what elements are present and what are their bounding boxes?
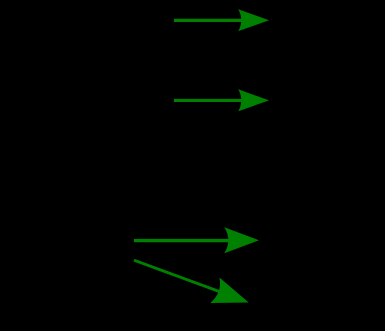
arrow 4 shaft <box>134 260 222 292</box>
arrow 2 shaft <box>174 99 242 102</box>
arrow 2 head <box>238 89 269 111</box>
arrow 1 shaft <box>174 19 242 22</box>
arrow 3 shaft <box>134 239 230 242</box>
arrow 3 head <box>224 227 259 253</box>
arrow 4 head <box>210 278 253 316</box>
arrow 1 head <box>238 9 269 31</box>
